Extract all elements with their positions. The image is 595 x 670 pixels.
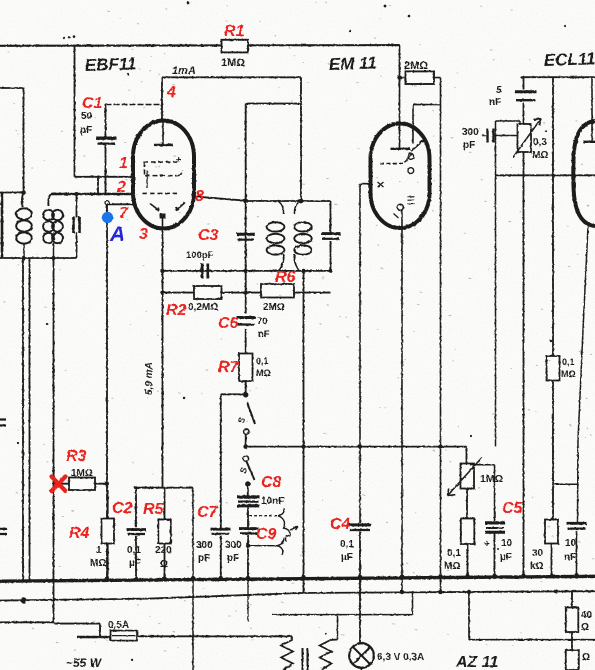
svg-text:4: 4: [166, 84, 176, 101]
svg-text:0,3: 0,3: [533, 137, 547, 148]
svg-text:40: 40: [581, 610, 593, 621]
svg-text:ECL11: ECL11: [543, 49, 595, 70]
capacitor C3 100pF: [202, 264, 208, 279]
svg-text:50: 50: [81, 111, 93, 122]
wire x303.5 long drop: [303, 271, 305, 593]
wire y446 long row: [246, 446, 467, 448]
capacitor 5nF: [523, 77, 525, 124]
svg-text:1MΩ: 1MΩ: [71, 468, 93, 479]
coil IF1 right: [43, 210, 54, 220]
svg-text:1: 1: [119, 155, 128, 172]
coil IF2 right: [294, 201, 300, 214]
svg-text:Ω: Ω: [582, 652, 590, 663]
artifact left edge marks: [0, 420, 7, 535]
wire x440 long drop: [440, 78, 442, 593]
svg-text:C8: C8: [261, 474, 282, 491]
resistor R6 2M box: [261, 284, 294, 298]
capacitor C7: [211, 528, 231, 531]
svg-text:µF: µF: [129, 558, 141, 569]
svg-text:A: A: [109, 223, 125, 246]
svg-text:+: +: [484, 539, 490, 550]
switch S upper: [244, 393, 248, 397]
svg-text:0,5A: 0,5A: [108, 620, 129, 631]
svg-text:nF: nF: [489, 97, 501, 108]
cathode marks EBF11: [146, 171, 148, 189]
wire chassis bus: [0, 576, 595, 581]
capacitor IF2 right: [330, 201, 332, 271]
electrode EM11 circles: [408, 154, 414, 160]
wire left edge vertical: [1, 193, 4, 259]
wire pin8: [194, 196, 246, 200]
capacitor C6: [237, 316, 256, 319]
wire dashed tap C8-C9: [249, 515, 278, 517]
svg-text:100pF: 100pF: [186, 250, 214, 261]
WIRES-TOP: [0, 40, 400, 623]
svg-text:R3: R3: [66, 448, 87, 465]
WIRES-LEFT-BOTTOM: [54, 478, 194, 670]
svg-text:C2: C2: [112, 500, 133, 517]
wire cathode EBF11 down: [162, 228, 164, 488]
wire EM11 top feed: [399, 45, 401, 148]
tube EM11 envelope: [371, 124, 430, 229]
wire y103.5 link: [246, 103, 301, 105]
svg-text:0,1: 0,1: [562, 357, 575, 367]
grid dashed 3: [143, 192, 178, 194]
svg-text:0,1: 0,1: [256, 356, 269, 366]
RED-LABELS: [52, 23, 524, 543]
tube EBF11 envelope: [133, 121, 194, 229]
grid EM11 dashed: [380, 163, 406, 165]
wire AZ11 column: [469, 592, 595, 640]
capacitor C2: [135, 488, 137, 580]
wire y175 row: [496, 174, 595, 176]
wire y487.5 row: [134, 487, 193, 489]
resistor 0,1M right column: [547, 356, 560, 381]
svg-text:MΩ: MΩ: [444, 561, 460, 572]
electrode EM11 target diagonal: [411, 139, 426, 152]
resistor R5: [164, 488, 166, 580]
squiggle tone tap upper: [278, 508, 290, 541]
coil IF2 left: [278, 201, 284, 214]
svg-text:Ω: Ω: [160, 559, 168, 570]
svg-text:1MΩ: 1MΩ: [221, 57, 245, 69]
svg-text:kΩ: kΩ: [530, 561, 544, 572]
wire grid bold y194: [51, 193, 134, 196]
svg-text:pF: pF: [463, 140, 475, 151]
wire lower rail: [0, 591, 595, 600]
capacitor bars small: [303, 648, 308, 670]
resistor 30k: [545, 520, 558, 544]
wire stub below bus x248: [247, 580, 249, 621]
TUBE-EM11: [360, 45, 441, 592]
node junction dots: [21, 190, 26, 195]
wire EM11 grid left: [360, 184, 371, 523]
wire screen feed y77: [162, 77, 301, 201]
wire C1 top to pin4 line: [106, 104, 163, 106]
wire drop from rail at x75: [74, 46, 76, 177]
svg-text:300: 300: [462, 127, 479, 138]
electrode EM11 top bar: [391, 148, 411, 150]
svg-text:Ω: Ω: [581, 622, 589, 633]
electrode ECL11 bar: [583, 141, 595, 143]
svg-text:pF: pF: [198, 553, 210, 564]
svg-text:R2: R2: [166, 302, 187, 319]
mark X red: [52, 477, 66, 492]
svg-text:R5: R5: [143, 501, 165, 518]
IF2 transformer top wire: [246, 200, 331, 202]
svg-text:0,1: 0,1: [127, 545, 141, 556]
wire pot top to C5: [470, 465, 495, 521]
capacitor IF1 tuning: [76, 194, 78, 258]
wire antenna top left: [0, 88, 24, 193]
svg-text:220: 220: [155, 545, 172, 556]
svg-text:MΩ: MΩ: [561, 369, 576, 379]
svg-text:nF: nF: [258, 329, 270, 340]
wire IF1 verticals to bus: [23, 258, 54, 623]
svg-text:nF: nF: [564, 552, 576, 563]
svg-text:µF: µF: [341, 552, 353, 563]
svg-text:1mA: 1mA: [172, 65, 196, 77]
svg-text:1: 1: [96, 545, 102, 556]
tube ECL11 envelope partial: [573, 121, 595, 226]
svg-text:10: 10: [565, 538, 577, 549]
wire x193 drop: [192, 488, 194, 670]
svg-text:5,9 mA: 5,9 mA: [144, 362, 155, 395]
wire IF1 bottom y258: [0, 257, 77, 259]
wire y121 pot top link: [496, 121, 521, 125]
wire branch y394 to C7 line: [221, 394, 246, 529]
svg-text:0,2MΩ: 0,2MΩ: [188, 302, 218, 313]
cathode EM11: [397, 204, 403, 210]
svg-text:C7: C7: [197, 504, 219, 521]
svg-text:8: 8: [195, 188, 204, 205]
svg-text:0,1: 0,1: [447, 548, 461, 559]
wire ECL sub rail y77: [521, 76, 595, 78]
svg-text:0,1: 0,1: [340, 539, 354, 550]
wire below C9 tap: [248, 545, 277, 547]
grid dashed 1: [144, 161, 181, 163]
wire R7 bottom to switch: [245, 381, 247, 396]
resistor R1 box: [222, 40, 249, 53]
node A dot blue: [102, 212, 113, 223]
capacitor C8 block: [237, 495, 260, 498]
svg-text:2: 2: [116, 179, 126, 196]
wire jog y177 to tube grid: [75, 177, 134, 194]
svg-text:R4: R4: [69, 525, 90, 542]
svg-text:EBF11: EBF11: [84, 54, 136, 75]
fuse 0,5A: [77, 636, 111, 639]
resistor 2MΩ box: [400, 77, 441, 79]
capacitor 10nF right: [577, 227, 589, 579]
svg-text:30: 30: [532, 548, 544, 559]
svg-text:pF: pF: [80, 125, 92, 136]
BLUE-MARKS: [102, 212, 125, 246]
electrode top plate EBF11: [162, 121, 164, 145]
svg-text:µF: µF: [500, 552, 512, 563]
svg-text:R7: R7: [218, 359, 240, 376]
WIRES-BOTTOM: [0, 525, 595, 670]
resistor dropper zigzag 2: [320, 640, 338, 670]
svg-text:5: 5: [496, 85, 502, 96]
svg-text:C5: C5: [502, 500, 524, 517]
wire EM11 cathode drop: [401, 211, 403, 593]
resistor mains dropper zigzag 1: [281, 637, 293, 670]
resistor R2 0,2M box: [194, 286, 222, 299]
svg-text:C1: C1: [82, 95, 103, 112]
resistor 0,1M bottom: [461, 519, 475, 545]
svg-text:2MΩ: 2MΩ: [263, 302, 285, 313]
switch S lower: [243, 456, 248, 461]
wire x495 drop: [495, 121, 497, 446]
svg-text:C9: C9: [256, 526, 277, 543]
svg-text:pF: pF: [227, 553, 239, 564]
svg-text:EM 11: EM 11: [328, 53, 377, 74]
svg-text:300: 300: [196, 540, 213, 551]
node dot below C9: [246, 544, 250, 548]
squiggle tap lower: [277, 537, 284, 555]
resistor R4: [107, 490, 109, 580]
TUBE-EBF11: [133, 121, 194, 229]
wire y484 link right: [553, 483, 577, 485]
resistor right edge 2: [566, 650, 579, 670]
svg-text:MΩ: MΩ: [90, 558, 106, 569]
coil IF1 left: [16, 208, 32, 219]
potentiometer 1M volume: [466, 447, 468, 464]
wire pin7 to AVC line: [107, 204, 134, 579]
svg-text:C3: C3: [198, 227, 219, 244]
svg-text:~55 W: ~55 W: [66, 656, 103, 670]
svg-text:MΩ: MΩ: [256, 368, 271, 378]
scan speckles: [63, 37, 65, 39]
wire y271 C3 row: [163, 270, 332, 272]
grid dashed 2: [145, 162, 183, 176]
resistor R3 box: [54, 483, 108, 485]
node dots EBF area: [23, 192, 25, 194]
TUBE-ECL11: [573, 77, 595, 226]
svg-text:10: 10: [501, 538, 513, 549]
svg-text:MΩ: MΩ: [532, 150, 548, 161]
wire top B+ rail: [0, 44, 400, 47]
svg-text:300: 300: [225, 540, 242, 551]
capacitor C5 electrolytic: [485, 521, 505, 524]
capacitor IF2 left: [237, 233, 256, 236]
wire y614 stub: [272, 593, 413, 640]
svg-text:10nF: 10nF: [261, 496, 284, 507]
wire y104.5 into tube: [413, 105, 441, 144]
wire y292.5 R2-R6 row: [163, 292, 331, 294]
svg-text:C4: C4: [330, 516, 351, 533]
lamp 6,3V: [349, 643, 374, 668]
svg-text:6,3 V 0,3A: 6,3 V 0,3A: [377, 652, 424, 663]
svg-text:R1: R1: [224, 23, 245, 40]
wire x553 drop: [552, 77, 554, 519]
svg-text:R6: R6: [275, 269, 296, 286]
svg-text:70: 70: [257, 316, 268, 327]
capacitor C4: [349, 523, 372, 526]
wire x523.5 drop to bus: [523, 175, 525, 578]
capacitor 300pF: [488, 129, 494, 143]
wire AVC chain x245.7: [245, 104, 247, 354]
svg-text:3: 3: [139, 226, 148, 243]
potentiometer 0,3M box: [518, 124, 532, 152]
resistor R7 box: [239, 354, 253, 382]
WIRES-RIGHT: [448, 77, 595, 578]
capacitor C9: [239, 527, 259, 530]
wire left corner bottom: [0, 621, 54, 623]
capacitor C1 50pF: [96, 136, 117, 139]
svg-text:AZ 11: AZ 11: [455, 654, 498, 670]
svg-text:7: 7: [119, 205, 129, 222]
svg-text:1MΩ: 1MΩ: [480, 473, 503, 485]
WIRES-MID: [16, 104, 466, 594]
resistor right edge 1: [571, 591, 573, 650]
wire coil top leads: [22, 193, 51, 208]
svg-text:C6: C6: [218, 315, 239, 332]
svg-text:2MΩ: 2MΩ: [404, 60, 428, 72]
